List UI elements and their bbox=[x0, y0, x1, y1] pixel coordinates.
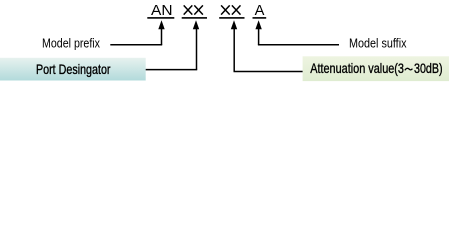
underline under first xx bbox=[182, 17, 207, 19]
arrow 4 shaft bbox=[258, 27, 260, 45]
underline under A bbox=[253, 17, 267, 19]
svg-text:Port Desingator: Port Desingator bbox=[36, 61, 111, 77]
code segment xx (second) bbox=[221, 5, 240, 14]
wide tilde in value label bbox=[405, 68, 413, 70]
svg-text:Model prefix: Model prefix bbox=[42, 36, 101, 50]
code segment xx (first) bbox=[184, 5, 203, 14]
wire from arrow 4 to Model suffix bbox=[258, 44, 339, 46]
arrow 2 shaft bbox=[196, 27, 198, 70]
wire from Model prefix to arrow 1 bbox=[110, 44, 162, 46]
underline under second xx bbox=[219, 17, 244, 19]
Attenuation value box bbox=[303, 56, 449, 81]
svg-text:Model suffix: Model suffix bbox=[349, 36, 407, 50]
arrow 3 head (under second xx) bbox=[231, 20, 237, 29]
arrow 1 head (under AN) bbox=[158, 20, 164, 29]
underline under AN bbox=[147, 17, 174, 19]
svg-text:A: A bbox=[255, 3, 265, 19]
arrow 2 head (under first xx) bbox=[193, 20, 199, 29]
arrow 4 head (under A) bbox=[255, 20, 261, 29]
svg-text:AN: AN bbox=[151, 3, 173, 19]
svg-text:Attenuation value(3: Attenuation value(3 bbox=[310, 60, 404, 76]
wire from Port Designator box to arrow 2 bbox=[146, 69, 198, 71]
Port Designator box bbox=[0, 58, 146, 81]
arrow 1 shaft bbox=[161, 27, 163, 45]
svg-text:30dB): 30dB) bbox=[414, 60, 443, 76]
wire from arrow 3 to Attenuation box bbox=[234, 71, 303, 73]
arrow 3 shaft bbox=[233, 27, 235, 72]
